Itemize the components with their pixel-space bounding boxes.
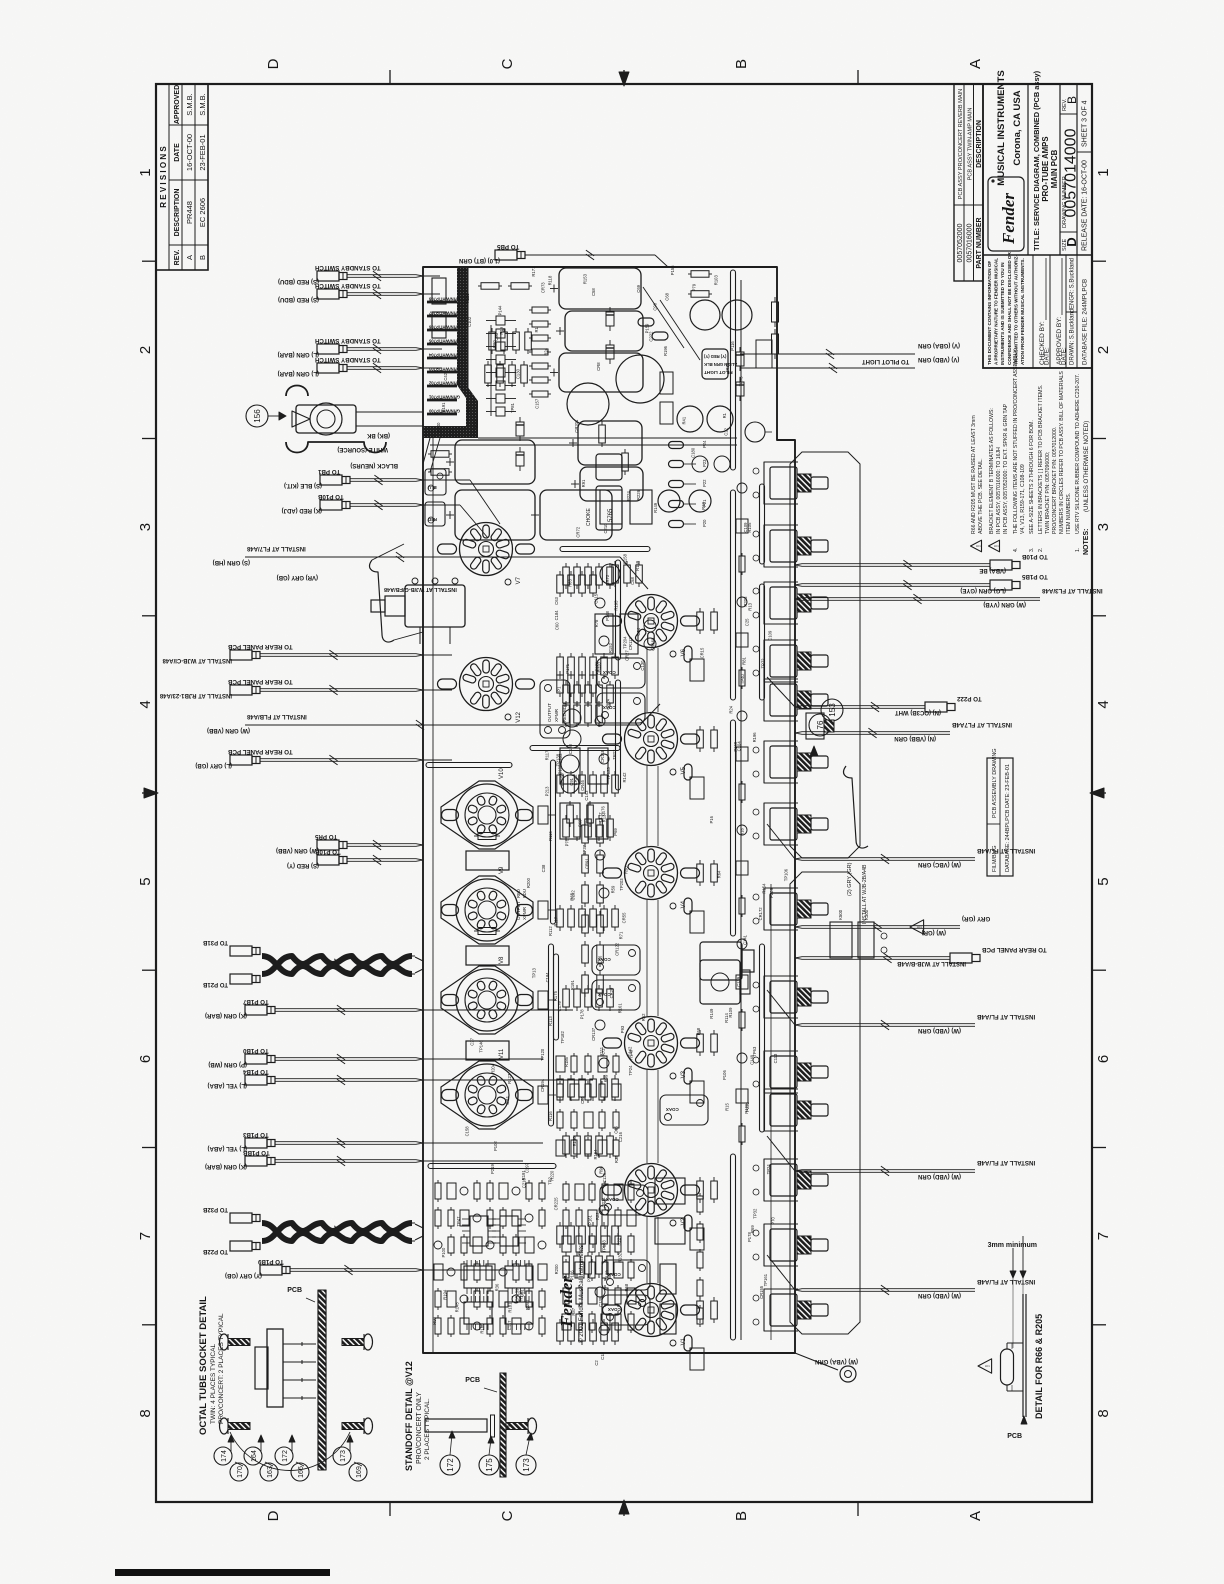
resistor [582, 855, 589, 873]
resistor [563, 1136, 570, 1154]
resistor [612, 909, 619, 927]
wire TO P10B [282, 493, 423, 513]
pcb slots [426, 270, 765, 1340]
resistor network combs [464, 1260, 533, 1330]
pcb slot [731, 1154, 736, 1340]
svg-text:(2) GRY (GR): (2) GRY (GR) [847, 862, 853, 896]
svg-text:COAX: COAX [598, 992, 611, 997]
svg-text:C180: C180 [691, 447, 696, 458]
power switch S1 with strain relief loop [286, 386, 423, 453]
wire TO P1BB [205, 1149, 423, 1169]
svg-text:GRN/WHT/P701: GRN/WHT/P701 [428, 395, 460, 400]
resistor [602, 1262, 608, 1278]
svg-text:INSTALL AT WJB-B/A4B: INSTALL AT WJB-B/A4B [897, 960, 966, 966]
resistor [568, 575, 575, 593]
svg-text:7: 7 [137, 1232, 154, 1240]
resistor [579, 1226, 586, 1244]
resistor [574, 989, 581, 1007]
svg-text:CR46: CR46 [580, 780, 585, 791]
pilot light label [702, 349, 737, 379]
potentiometer R69 [764, 1224, 828, 1266]
svg-text:PCB ASSY PRO/CONCERT REVERB MA: PCB ASSY PRO/CONCERT REVERB MAIN [958, 89, 964, 199]
svg-text:R191: R191 [441, 402, 446, 413]
svg-text:P213: P213 [544, 786, 549, 796]
svg-text:TO P1BB: TO P1BB [242, 1149, 269, 1156]
svg-text:V11: V11 [499, 1048, 505, 1059]
svg-text:P156: P156 [670, 265, 675, 275]
revisions table [156, 84, 208, 270]
pcb slot [551, 760, 556, 924]
resistor [481, 283, 499, 290]
svg-text:R140: R140 [436, 422, 441, 433]
resistor [589, 1262, 595, 1278]
ring terminal wire GRN [795, 1353, 858, 1382]
resistor network [464, 1266, 492, 1288]
varistor MOV1 [745, 422, 765, 442]
svg-text:(W) (VBA) GRN: (W) (VBA) GRN [815, 1358, 858, 1364]
svg-text:3: 3 [1095, 523, 1112, 531]
svg-text:COAX: COAX [603, 705, 616, 710]
size and drawing number [1060, 231, 1077, 233]
resistor [557, 775, 564, 793]
svg-text:R171: R171 [531, 266, 536, 277]
jack J3 [700, 960, 750, 1004]
resistor [557, 575, 564, 593]
svg-text:(W) (GR): (W) (GR) [922, 929, 946, 935]
wire INSTALL AT FL/A4B [767, 1136, 1035, 1179]
resistor [557, 675, 564, 693]
svg-text:C177: C177 [598, 812, 603, 823]
svg-text:IN PCB ASSY, 0057052000: TO EX: IN PCB ASSY, 0057052000: TO EXT. SPKR & … [1003, 403, 1009, 534]
svg-text:P69: P69 [613, 828, 618, 836]
svg-text:R50: R50 [624, 866, 629, 874]
svg-text:V12: V12 [516, 711, 522, 722]
svg-text:4: 4 [137, 700, 154, 708]
svg-text:5: 5 [137, 877, 154, 885]
svg-text:P68: P68 [696, 1027, 701, 1035]
svg-text:REV.: REV. [174, 250, 181, 266]
pcb slot [760, 584, 765, 700]
resistor [697, 1224, 703, 1240]
svg-text:175: 175 [485, 1458, 494, 1472]
resistor [697, 1252, 703, 1268]
svg-text:(VBA) BE: (VBA) BE [979, 567, 1006, 573]
resistor [532, 307, 548, 313]
svg-text:(W) (VBD) GRN: (W) (VBD) GRN [918, 1173, 961, 1179]
svg-text:CR27: CR27 [625, 650, 630, 661]
svg-text:TO P1B5: TO P1B5 [1021, 573, 1047, 580]
diode [516, 422, 524, 436]
resistor [607, 819, 614, 837]
wire TO P1B3 [208, 1131, 423, 1151]
svg-text:(P) GRN (WB): (P) GRN (WB) [208, 1061, 247, 1067]
resistor [711, 1034, 718, 1052]
resistor [628, 1236, 634, 1252]
diode [736, 382, 744, 396]
svg-text:D: D [265, 1510, 282, 1521]
wire TO P10B [795, 553, 1048, 573]
svg-text:7: 7 [1095, 1232, 1112, 1240]
resistor [602, 1210, 608, 1226]
svg-text:XFMR: XFMR [554, 708, 559, 722]
coax cable flag [602, 1295, 650, 1325]
svg-text:R114: R114 [724, 1013, 729, 1023]
svg-text:(K) GRN (BAR): (K) GRN (BAR) [205, 1012, 247, 1018]
octal tube socket detail [198, 1287, 326, 1470]
resistor [435, 1291, 441, 1307]
svg-text:TP47: TP47 [456, 1216, 461, 1227]
svg-text:C158: C158 [465, 1126, 470, 1137]
resistor [697, 1301, 704, 1319]
faston flag RED [425, 502, 445, 526]
resistor [615, 1288, 621, 1304]
resistor [596, 705, 603, 723]
svg-text:STANDOFF DETAIL @V12: STANDOFF DETAIL @V12 [404, 1361, 414, 1471]
svg-text:TP161: TP161 [763, 1273, 768, 1286]
resistor [532, 335, 548, 341]
svg-text:!: ! [994, 545, 1001, 547]
resistor [574, 685, 581, 703]
svg-text:C113: C113 [773, 1053, 778, 1063]
svg-text:C58: C58 [591, 288, 596, 296]
octal bias components [526, 709, 608, 1121]
resistor [576, 1288, 582, 1304]
svg-text:R24: R24 [544, 347, 549, 355]
svg-text:RED BDU: RED BDU [562, 703, 567, 722]
title block [954, 70, 1092, 368]
svg-text:TP13: TP13 [531, 968, 536, 979]
svg-text:TO PB1: TO PB1 [317, 468, 340, 475]
electrolytic capacitor [580, 467, 643, 501]
svg-text:C109: C109 [768, 630, 773, 641]
resistor [772, 334, 779, 354]
svg-text:172: 172 [446, 1458, 455, 1472]
svg-text:R200: R200 [526, 877, 531, 888]
resistor [557, 1084, 563, 1100]
svg-text:D: D [265, 58, 282, 69]
svg-text:TO PR5: TO PR5 [314, 833, 337, 840]
resistor [585, 1084, 591, 1100]
resistor [599, 1112, 605, 1128]
resistor [579, 675, 586, 693]
svg-text:RED: RED [516, 889, 521, 898]
svg-text:C180: C180 [568, 743, 573, 754]
svg-text:TO P1B7: TO P1B7 [242, 998, 268, 1005]
svg-text:R200: R200 [554, 1264, 559, 1275]
svg-text:16-OCT-00: 16-OCT-00 [185, 134, 194, 171]
svg-text:C141: C141 [742, 934, 747, 945]
svg-text:COAX: COAX [608, 1272, 621, 1277]
coax flag labels [592, 658, 708, 1325]
resistor [739, 1126, 745, 1142]
svg-text:170: 170 [237, 1466, 244, 1478]
svg-text:TO REAR PANEL PCB: TO REAR PANEL PCB [227, 643, 292, 650]
resistor [568, 1226, 575, 1244]
relay K500 [830, 909, 887, 958]
svg-text:1: 1 [1095, 168, 1112, 176]
resistor [500, 1318, 506, 1334]
svg-text:R169: R169 [635, 560, 640, 571]
svg-text:COAX: COAX [666, 1107, 679, 1112]
octal detail boundary arc [230, 1432, 350, 1471]
resistor [587, 805, 594, 823]
svg-text:C125: C125 [602, 1172, 607, 1183]
wire TO REAR PANEL PCB [159, 678, 423, 698]
svg-text:C184: C184 [554, 610, 559, 621]
svg-text:R194: R194 [442, 1289, 447, 1300]
svg-text:V7: V7 [516, 576, 522, 584]
svg-text:CR225: CR225 [554, 1197, 559, 1211]
svg-text:PCB ASSY TWIN-AMP MAIN: PCB ASSY TWIN-AMP MAIN [968, 108, 974, 181]
svg-text:C27: C27 [469, 1037, 474, 1045]
resistor [448, 1210, 454, 1226]
svg-text:C157: C157 [534, 398, 539, 409]
potentiometer R64 [764, 888, 828, 930]
svg-text:R161: R161 [617, 1003, 622, 1014]
resistor [624, 565, 631, 583]
resistor [585, 567, 592, 585]
resistor [487, 1318, 493, 1334]
svg-text:6: 6 [1095, 1055, 1112, 1063]
svg-text:R100: R100 [519, 1290, 524, 1301]
svg-text:TP27: TP27 [612, 749, 617, 760]
resistor [697, 1034, 704, 1052]
svg-text:V10: V10 [499, 768, 505, 779]
svg-text:BLU: BLU [428, 485, 437, 490]
resistor [615, 1236, 621, 1252]
svg-text:TP123: TP123 [606, 767, 611, 780]
pad pairs near controls [742, 468, 789, 1325]
svg-text:CR15: CR15 [700, 647, 705, 658]
svg-text:COAX: COAX [608, 1307, 621, 1312]
resistor [489, 332, 496, 350]
svg-text:(W) GRN (VBB): (W) GRN (VBB) [207, 727, 250, 733]
wire TO STANDBY SWITCH [278, 264, 423, 284]
resistor [563, 1210, 569, 1226]
pcb slot [731, 490, 736, 700]
svg-text:TO P1B4: TO P1B4 [242, 1068, 268, 1075]
svg-text:R204: R204 [491, 1063, 496, 1074]
resistor [711, 1301, 718, 1319]
svg-text:(L) GRY (GB): (L) GRY (GB) [195, 762, 232, 768]
svg-text:3mm minimum: 3mm minimum [988, 1242, 1037, 1249]
svg-text:C2: C2 [594, 1360, 599, 1366]
svg-text:A PROPRIETARY NATURE TO FENDER: A PROPRIETARY NATURE TO FENDER MUSICAL [994, 258, 999, 365]
svg-text:C102: C102 [467, 316, 472, 327]
edge wire pads P700-P709 [427, 297, 460, 415]
relay K1 [466, 851, 509, 870]
svg-text:TO P31B: TO P31B [202, 939, 228, 945]
svg-text:C22: C22 [724, 427, 729, 435]
potentiometer R67 [764, 1089, 828, 1131]
resistor [435, 1318, 441, 1334]
output transformer flag [540, 680, 570, 738]
resistor [525, 332, 532, 350]
potentiometer R70 [764, 1289, 828, 1331]
svg-text:TO P1B9: TO P1B9 [257, 1258, 283, 1265]
resistor [739, 556, 745, 572]
resistor [576, 1236, 582, 1252]
jack J2 [700, 942, 754, 980]
svg-text:TP133: TP133 [601, 1240, 606, 1253]
PCB assembly drawing label box [987, 748, 1013, 876]
resistor [563, 989, 570, 1007]
svg-text:P209: P209 [769, 888, 774, 898]
relay K3 [466, 1041, 509, 1060]
approval block [1032, 255, 1034, 368]
part number table [954, 84, 983, 281]
svg-text:C68: C68 [665, 292, 670, 300]
svg-text:EC 2606: EC 2606 [198, 198, 207, 227]
resistor [497, 365, 504, 383]
resistor [568, 1079, 575, 1097]
resistor [739, 898, 745, 914]
svg-text:R65: R65 [569, 892, 574, 900]
svg-text:CR137: CR137 [591, 1027, 596, 1041]
svg-text:TO STANDBY SWITCH: TO STANDBY SWITCH [314, 356, 380, 363]
resistor [613, 1056, 619, 1072]
electrolytic capacitor [455, 440, 535, 484]
svg-text:P169: P169 [733, 741, 738, 751]
svg-text:RELEASE DATE: 16-OCT-00: RELEASE DATE: 16-OCT-00 [1082, 160, 1089, 251]
resistor [563, 1256, 570, 1274]
resistor [599, 1084, 605, 1100]
internal bus traces [430, 280, 771, 1353]
resistor [585, 1136, 592, 1154]
resistor [772, 302, 779, 322]
svg-text:5765: 5765 [608, 508, 614, 522]
heater supply trace (hatched band) [423, 268, 478, 438]
svg-text:CR172: CR172 [758, 907, 763, 921]
resistor [557, 909, 564, 927]
svg-text:Fender: Fender [999, 193, 1018, 245]
tube socket V5 [603, 713, 700, 776]
svg-text:R22: R22 [617, 1237, 622, 1245]
heater wire entries [423, 438, 430, 464]
resistor [590, 675, 597, 693]
svg-text:153: 153 [828, 703, 837, 717]
svg-text:PRO-TUBE AMPS: PRO-TUBE AMPS [1041, 136, 1050, 201]
resistor [478, 833, 496, 840]
svg-text:C210: C210 [603, 523, 608, 534]
svg-text:R72: R72 [601, 1048, 606, 1056]
resistor [568, 775, 575, 793]
test point pads PR2-PR5 [669, 440, 708, 528]
item callout 153 [821, 699, 843, 721]
svg-text:TO P1B3: TO P1B3 [242, 1131, 268, 1138]
standoff detail [404, 1361, 537, 1477]
svg-text:S.M.B.: S.M.B. [185, 93, 194, 116]
resistor [601, 657, 608, 675]
svg-text:P222: P222 [745, 1101, 750, 1111]
svg-text:R91: R91 [581, 479, 586, 487]
svg-text:R152: R152 [608, 642, 613, 653]
filament traces between sockets [647, 648, 658, 1283]
svg-text:Corona, CA USA: Corona, CA USA [1012, 90, 1023, 165]
svg-text:INSTALL AT RJB1-23/A48: INSTALL AT RJB1-23/A48 [159, 692, 232, 698]
tube socket V10 [441, 768, 533, 849]
Fender musical instruments copyright [557, 1245, 585, 1343]
svg-text:R109: R109 [728, 1007, 733, 1018]
resistor [585, 705, 592, 723]
svg-text:TITLE: SERVICE DIAGRAM, COMBIN: TITLE: SERVICE DIAGRAM, COMBINED (PCB as… [1032, 70, 1041, 251]
resistor [431, 451, 449, 458]
resistor [532, 363, 548, 369]
coax cable flag [602, 1260, 650, 1290]
svg-text:GRN/WHT/P705: GRN/WHT/P705 [428, 339, 460, 344]
svg-text:TO REAR PANEL PCB: TO REAR PANEL PCB [981, 946, 1046, 953]
svg-text:R16: R16 [740, 827, 745, 835]
resistor [448, 1237, 454, 1253]
resistor [596, 819, 603, 837]
dip IC U1 [462, 1216, 496, 1246]
dip IC U2 [492, 1216, 526, 1246]
svg-text:TO P10B: TO P10B [1021, 553, 1047, 560]
capacitor C60 [690, 300, 720, 330]
capacitor C61 [722, 300, 752, 330]
svg-text:TP72: TP72 [761, 658, 766, 669]
svg-text:SEE A-SIZE SHEETS 2 THROUGH 6: SEE A-SIZE SHEETS 2 THROUGH 6 FOR BOM. [1029, 420, 1035, 534]
svg-text:C91: C91 [569, 777, 574, 785]
zone ticks and labels [137, 58, 1112, 1521]
pcb slot [616, 560, 621, 660]
potentiometer R68 [764, 1159, 828, 1201]
svg-text:TP146: TP146 [479, 1040, 484, 1053]
resistor [574, 567, 581, 585]
svg-text:TO P32B: TO P32B [202, 1206, 228, 1212]
resistor [557, 1226, 564, 1244]
svg-text:R196: R196 [752, 732, 757, 743]
svg-text:(L) YEL (ABA): (L) YEL (ABA) [208, 1082, 247, 1088]
svg-text:USE RTV SILICONE RUBBER COMPOU: USE RTV SILICONE RUBBER COMPOUND TO ADHE… [1075, 374, 1081, 534]
svg-text:!: ! [976, 545, 983, 547]
svg-text:GRN/WHT/P707: GRN/WHT/P707 [428, 311, 460, 316]
svg-text:172: 172 [282, 1450, 289, 1462]
svg-text:R15: R15 [725, 1103, 730, 1111]
svg-text:164: 164 [251, 1450, 258, 1462]
svg-text:CR4: CR4 [505, 1096, 510, 1105]
pcb slot [731, 720, 736, 936]
svg-text:PCB: PCB [287, 1287, 302, 1294]
wire TO STANDBY SWITCH [278, 282, 423, 302]
resistor [607, 989, 614, 1007]
svg-text:P72: P72 [586, 1274, 591, 1282]
resistor [739, 1012, 745, 1028]
resistor [607, 1136, 614, 1154]
svg-text:R154: R154 [762, 883, 767, 894]
resistor [601, 909, 608, 927]
potentiometer R58 [764, 525, 828, 567]
svg-text:R36: R36 [495, 1283, 500, 1291]
power supply component cluster [428, 266, 658, 584]
svg-text:0057014000: 0057014000 [1063, 128, 1080, 217]
release date and sheet [1077, 151, 1092, 153]
svg-text:P93: P93 [620, 1025, 625, 1033]
svg-text:169: 169 [356, 1466, 363, 1478]
wire INSTALL AT FL/A4B [767, 990, 1035, 1033]
resistor [539, 1291, 545, 1307]
resistor [596, 1136, 603, 1154]
svg-text:(V) (VBD) GRN: (V) (VBD) GRN [918, 356, 959, 362]
resistor [539, 1210, 545, 1226]
resistor [597, 885, 604, 903]
resistor [585, 1140, 591, 1156]
resistor [431, 469, 449, 476]
resistor [567, 805, 574, 823]
svg-text:(S) RED (BDU): (S) RED (BDU) [278, 296, 319, 302]
svg-text:PCB: PCB [1007, 1433, 1022, 1440]
resistor [596, 685, 603, 703]
